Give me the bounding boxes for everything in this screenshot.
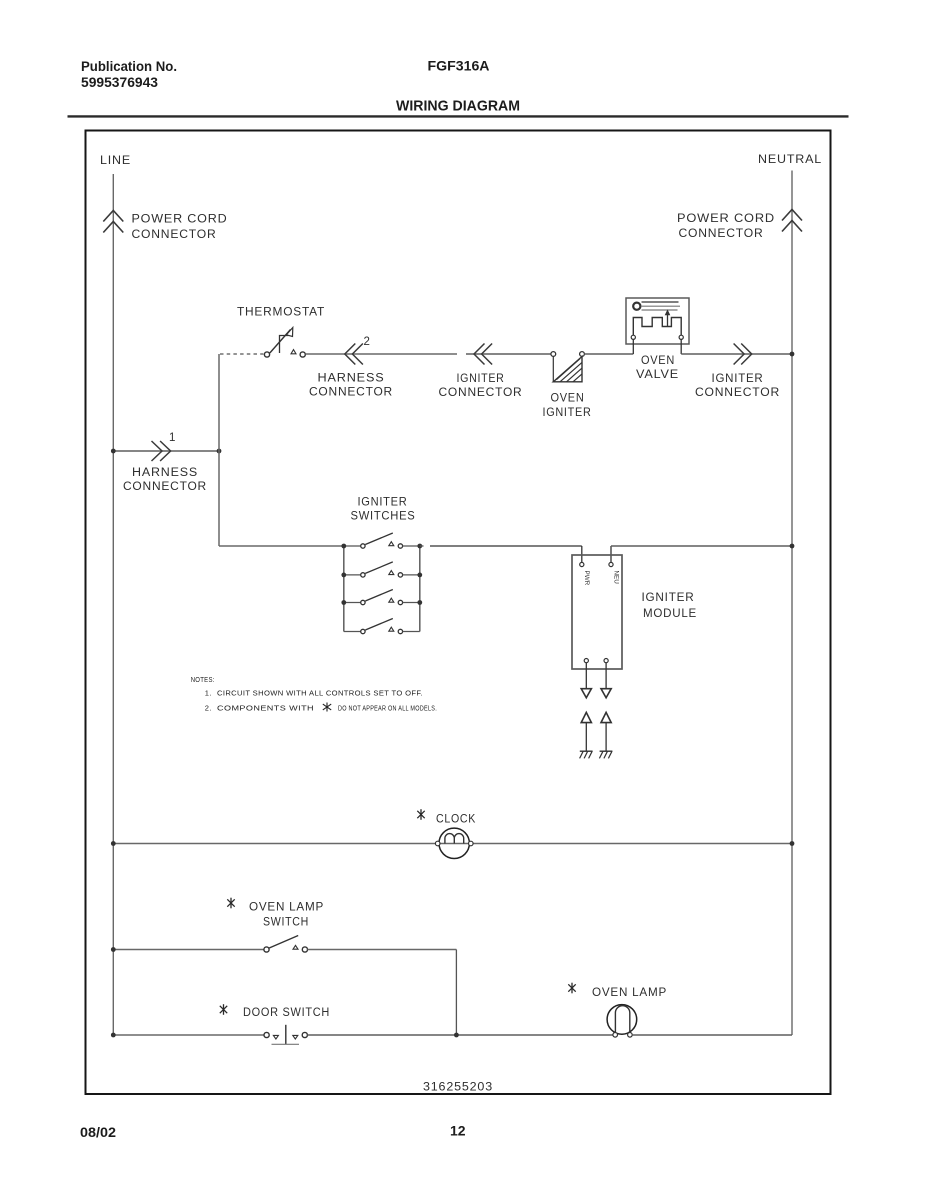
svg-text:DO NOT APPEAR ON ALL MODELS.: DO NOT APPEAR ON ALL MODELS. [338,703,437,712]
svg-text:5995376943: 5995376943 [81,75,158,90]
svg-text:IGNITER: IGNITER [543,405,592,419]
oven lamp switch S5 [113,898,456,952]
node dot clock/line [111,841,116,846]
node dot valve-line/neutral [790,352,795,357]
title WIRING DIAGRAM [396,99,520,115]
igniter connector right chevrons [695,344,780,399]
wire switches to igniter module PWR [420,546,582,562]
wire lamp switch down branch [455,950,457,1036]
wire line-vertical-left [112,174,114,1035]
svg-text:08/02: 08/02 [80,1124,116,1140]
svg-text:DOOR SWITCH: DOOR SWITCH [243,1005,330,1019]
door switch S6 [113,1004,613,1044]
node dot right bus row1 [417,544,422,549]
title FGF316A [428,58,490,74]
node dot right bus row3 [417,600,422,605]
wire clock line [113,843,792,845]
svg-text:LINE: LINE [100,153,131,167]
svg-text:MODULE: MODULE [643,606,697,620]
svg-text:POWER CORD: POWER CORD [677,211,775,225]
wire to ground right [605,723,607,752]
node dot left bus row1 [341,544,346,549]
svg-text:THERMOSTAT: THERMOSTAT [237,305,325,319]
wire branch to igniter switches [219,545,344,547]
svg-text:2.: 2. [205,703,212,712]
svg-text:IGNITER: IGNITER [457,371,505,385]
svg-text:CONNECTOR: CONNECTOR [309,384,393,398]
border frame [86,131,831,1095]
power cord connector left J1 [103,211,227,242]
svg-text:1.: 1. [205,688,212,697]
svg-text:FGF316A: FGF316A [428,58,490,74]
igniter switch S2 [344,562,420,577]
svg-text:Publication No.: Publication No. [81,59,177,74]
svg-text:NEUTRAL: NEUTRAL [758,152,822,166]
svg-text:CONNECTOR: CONNECTOR [439,385,523,399]
wire module pin3 lead [585,663,587,689]
wire thermostat branch vertical [218,354,220,546]
connector terminal up-triangle left [581,712,591,722]
notes asterisk [323,703,331,712]
wire igniter to valve [584,353,633,355]
igniter connector top chevrons [439,344,523,399]
harness connector 2 chevrons [309,336,393,398]
wire module pin4 lead [605,663,607,689]
svg-text:OVEN: OVEN [641,353,675,367]
svg-text:2: 2 [364,336,370,348]
node dot door-switch/line [111,1033,116,1038]
svg-text:POWER CORD: POWER CORD [132,212,228,226]
igniter switches left bus [343,546,345,632]
footer date 08/02 [80,1124,116,1140]
oven igniter E1 [543,352,592,419]
part number 316255203 [423,1080,493,1094]
svg-text:IGNITER: IGNITER [642,590,695,604]
node dot right bus row2 [417,573,422,578]
svg-text:CONNECTOR: CONNECTOR [695,385,780,399]
harness connector 1 chevrons [123,432,207,493]
wire thermostat to oven igniter [305,353,551,355]
connector terminal up-triangle right [601,712,611,722]
svg-text:CONNECTOR: CONNECTOR [679,226,764,240]
node dot lamp-switch/line [111,947,116,952]
connector terminal down-triangle left [581,689,591,698]
oven lamp DS1 [568,983,792,1037]
svg-text:WIRING DIAGRAM: WIRING DIAGRAM [396,99,520,115]
thermostat TH1 [220,305,325,358]
node dot at thermostat-branch/harness1 [217,449,222,454]
svg-text:OVEN LAMP: OVEN LAMP [249,900,324,914]
svg-text:CONNECTOR: CONNECTOR [123,479,207,493]
igniter switches label [351,495,416,523]
svg-text:COMPONENTS WITH: COMPONENTS WITH [217,703,314,712]
ground left [580,751,593,758]
svg-text:316255203: 316255203 [423,1080,493,1094]
node dot clock/neutral [790,841,795,846]
node dot door-switch/lamp-branch [454,1033,459,1038]
svg-text:HARNESS: HARNESS [318,371,385,385]
node LINE [100,153,131,167]
svg-text:IGNITER: IGNITER [358,495,408,509]
node dot left bus row2 [341,573,346,578]
connector terminal down-triangle right [601,689,611,698]
power cord connector right J2 [677,210,802,241]
svg-text:HARNESS: HARNESS [132,465,198,479]
igniter switch S4 [344,619,420,634]
wire to ground left [585,723,587,752]
title Publication No. [81,59,177,90]
wire valve to neutral [681,353,792,355]
header rule [68,115,849,117]
svg-text:NEU: NEU [612,571,619,585]
node dot left bus row3 [341,600,346,605]
svg-text:VALVE: VALVE [636,367,679,381]
notes [191,675,437,712]
igniter module U1 [572,555,697,669]
ground right [599,751,612,758]
node dot NEU/neutral [790,544,795,549]
svg-text:OVEN: OVEN [551,391,585,405]
svg-text:PWR: PWR [583,571,590,586]
svg-text:CIRCUIT SHOWN WITH ALL CONTROL: CIRCUIT SHOWN WITH ALL CONTROLS SET TO O… [217,688,423,697]
wire harness1 [113,450,219,452]
clock M1 [417,809,476,858]
footer page 12 [450,1123,466,1139]
svg-text:SWITCHES: SWITCHES [351,508,416,522]
svg-text:SWITCH: SWITCH [263,915,309,929]
svg-text:NOTES:: NOTES: [191,675,215,684]
wire igniter module NEU to neutral [611,546,792,562]
oven valve V1 [626,298,689,381]
svg-text:CONNECTOR: CONNECTOR [132,227,217,241]
igniter switch S1 [344,533,420,548]
svg-text:OVEN LAMP: OVEN LAMP [592,985,667,999]
wire neutral-vertical-right [791,171,793,1036]
svg-text:12: 12 [450,1123,466,1139]
svg-text:CLOCK: CLOCK [436,812,476,826]
node dot at line/harness1 [111,449,116,454]
igniter switches right bus [419,546,421,632]
svg-text:1: 1 [169,432,175,444]
igniter switch S3 [344,590,420,605]
node NEUTRAL [758,152,822,166]
svg-text:IGNITER: IGNITER [712,371,764,385]
